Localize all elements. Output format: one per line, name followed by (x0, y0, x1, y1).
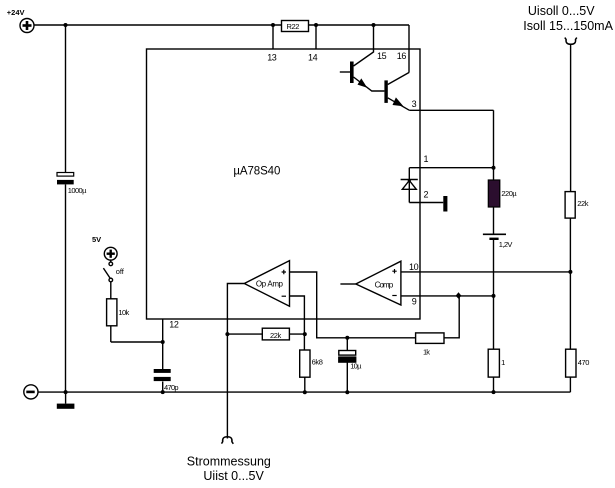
svg-text:Op Amp: Op Amp (256, 280, 284, 289)
svg-text:14: 14 (308, 53, 318, 63)
svg-text:1,2V: 1,2V (499, 240, 513, 249)
svg-text:µA78S40: µA78S40 (233, 166, 280, 178)
svg-text:1: 1 (424, 154, 429, 164)
svg-text:10µ: 10µ (350, 361, 362, 370)
svg-text:3: 3 (412, 99, 417, 109)
svg-text:Comp: Comp (375, 280, 394, 289)
svg-text:Isoll 15...150mA: Isoll 15...150mA (523, 19, 613, 33)
svg-text:15: 15 (377, 51, 387, 61)
svg-text:9: 9 (412, 297, 417, 307)
svg-text:5V: 5V (92, 235, 101, 244)
svg-text:R22: R22 (287, 22, 300, 31)
svg-text:2: 2 (424, 190, 429, 200)
svg-text:10k: 10k (118, 308, 129, 317)
svg-text:470p: 470p (164, 383, 178, 392)
svg-text:Strommessung: Strommessung (187, 455, 271, 469)
svg-text:off: off (116, 267, 125, 276)
svg-text:Uiist 0...5V: Uiist 0...5V (203, 469, 264, 483)
svg-text:10: 10 (409, 262, 419, 272)
svg-text:22k: 22k (577, 199, 589, 208)
svg-text:12: 12 (169, 320, 179, 330)
svg-text:1000µ: 1000µ (68, 186, 87, 195)
svg-text:1k: 1k (423, 347, 430, 356)
svg-text:+24V: +24V (7, 8, 25, 17)
svg-text:6k8: 6k8 (312, 357, 323, 366)
svg-text:22k: 22k (270, 331, 282, 340)
svg-text:220µ: 220µ (501, 189, 517, 198)
svg-text:13: 13 (267, 53, 277, 63)
svg-text:470: 470 (578, 358, 590, 367)
svg-text:Uisoll 0...5V: Uisoll 0...5V (528, 4, 595, 18)
svg-text:1: 1 (501, 358, 505, 367)
svg-text:16: 16 (397, 51, 407, 61)
